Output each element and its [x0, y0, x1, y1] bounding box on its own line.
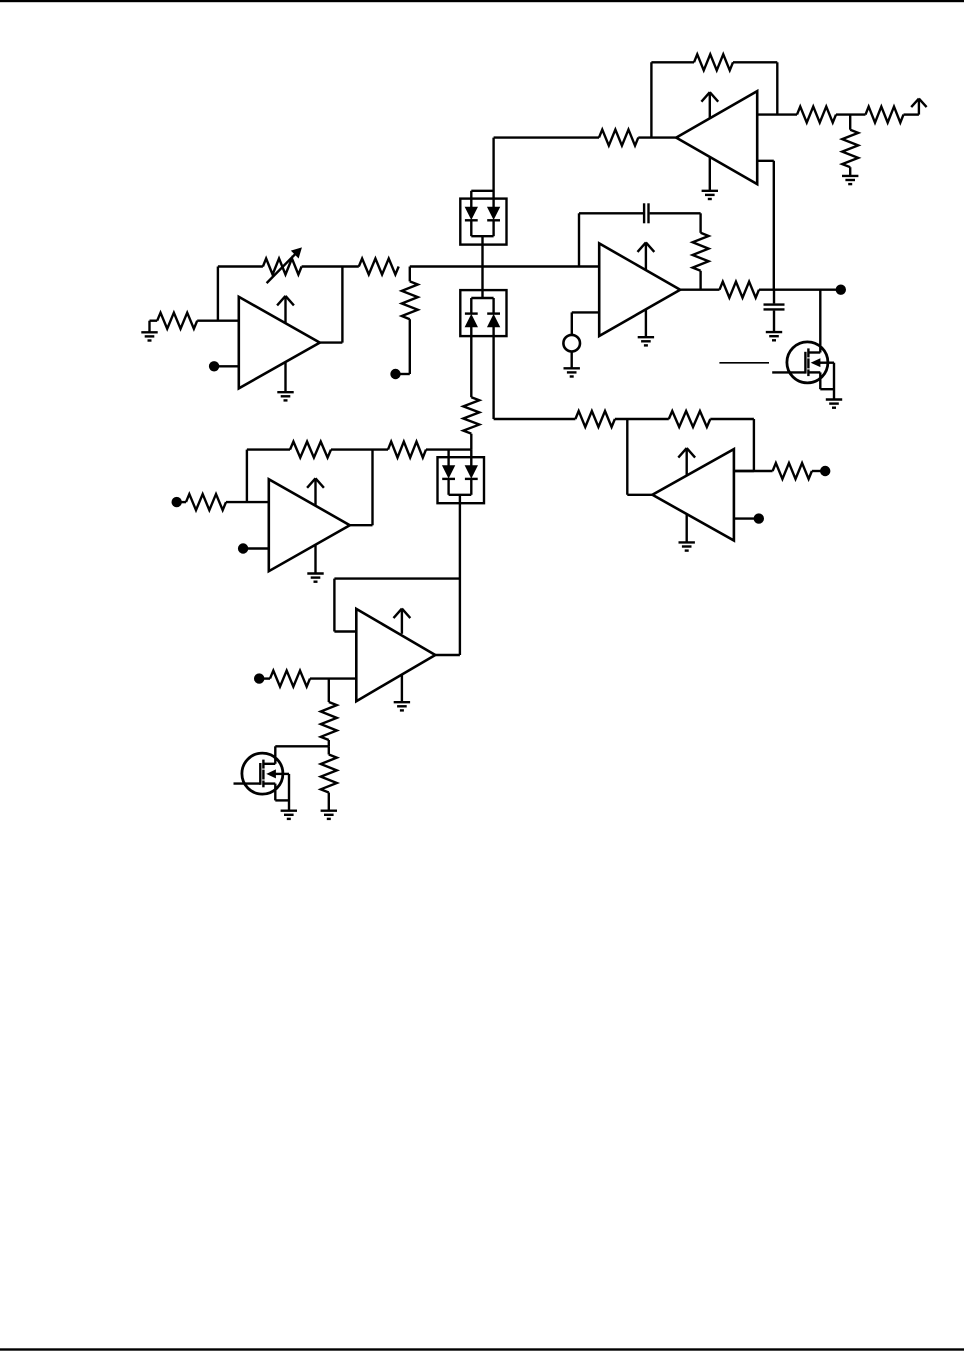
open circle terminal at U2: [563, 335, 580, 352]
wire divider node: [275, 745, 329, 747]
ground under R4: [842, 176, 858, 184]
node terminal dot U5 input: [254, 673, 270, 683]
node terminal dot U3 non-inverting: [238, 543, 269, 553]
wire C1 left vertical to bus: [578, 213, 580, 266]
resistor R1 (U1 feedback): [694, 54, 733, 70]
wire DB1 cathode leads: [471, 220, 493, 236]
wire to Q1 drain: [819, 290, 821, 353]
resistor R14 (to dot): [773, 463, 812, 479]
wire feedback top right segment (U1): [733, 61, 777, 63]
resistor R8 (U0 output): [359, 259, 399, 275]
wire feedback top left segment (U1): [651, 61, 694, 63]
node terminal dot U3 input: [172, 497, 187, 507]
ground under U2: [638, 309, 654, 346]
resistor R11 (U2 output): [720, 282, 759, 298]
wire to U4 output dot: [812, 470, 821, 472]
ground under U1: [702, 157, 718, 199]
diode D2: [487, 207, 500, 220]
wire main horizontal bus: [410, 265, 599, 267]
resistor R10 (U2 feedback): [693, 213, 709, 289]
resistor R16 (U3 feedback): [290, 442, 331, 458]
wire C1 top left segment: [579, 212, 643, 214]
wire DB3 to U5 output: [459, 495, 461, 655]
wire U2 non-inverting input: [572, 312, 599, 335]
wire U0 inverting input: [197, 320, 239, 322]
wire node to Q2 drain: [274, 746, 276, 764]
wire U4 lower pin: [734, 517, 754, 519]
ground under circle terminal: [564, 352, 580, 377]
wire DB1 top jog: [471, 191, 493, 208]
wire U0 feedback top right: [302, 265, 359, 267]
diode block DB2 box: [460, 290, 506, 336]
resistor R2 (input chain): [797, 107, 836, 123]
ground under Q2: [281, 811, 297, 819]
wire U3 feedback right vertical: [350, 450, 373, 526]
wire U3 feedback top middle: [331, 448, 388, 450]
op-amp U4: [652, 448, 734, 540]
wire DB3 left anode stub: [447, 450, 449, 466]
wire Q1 gate stub: [772, 371, 805, 373]
wire U1 output: [638, 136, 676, 138]
wire Q2 gate stub: [234, 782, 261, 784]
ground under U3: [307, 545, 323, 582]
wire to DB3 top: [426, 448, 471, 450]
resistor R13 (U4 feedback): [669, 411, 711, 427]
wire U1 output to diode block: [494, 138, 599, 208]
wire U0 feedback top left: [218, 265, 263, 267]
node terminal dot U0 non-inverting: [209, 361, 239, 371]
resistor R12 (U4 input): [575, 411, 614, 427]
wire U2 output: [680, 289, 719, 291]
transistor Q2: [242, 753, 289, 811]
ground under C2: [766, 332, 782, 340]
ground under U5: [394, 674, 410, 710]
diode D5: [442, 466, 455, 479]
capacitor C1 (U2 feedback): [644, 203, 648, 223]
wire U0 feedback right vertical: [320, 267, 343, 343]
wire U0 feedback left vertical: [217, 267, 219, 321]
ground at U0 input: [141, 321, 157, 341]
wire U4 chain middle: [615, 418, 669, 420]
transistor Q1: [787, 342, 834, 400]
wire U5 non-inverting input: [310, 677, 356, 679]
op-amp U2: [599, 242, 680, 336]
wire bus to DB2: [481, 267, 483, 299]
wire U1 pin down to node N1: [773, 161, 775, 290]
wire DB2 to U4 chain: [494, 418, 576, 420]
wire U1 non-inverting pin: [757, 160, 774, 162]
wire DB2 cathode leads: [471, 298, 493, 314]
resistor R4 (node B to ground): [842, 115, 858, 176]
diode block DB3 box: [438, 457, 485, 503]
bottom border rule: [0, 1348, 964, 1350]
wire U5 output: [435, 654, 460, 656]
op-amp U5: [356, 609, 435, 702]
wire node N1 to dot: [759, 289, 836, 291]
wire feedback left vertical (U1): [650, 62, 652, 137]
wire DB3 cathode leads: [449, 479, 472, 495]
op-amp U1: [676, 91, 757, 184]
wire DB3 right anode stub: [470, 450, 472, 466]
op-amp U0: [239, 296, 320, 389]
resistor R17 (to DB3): [388, 442, 426, 458]
resistor R20 (divider bottom): [321, 746, 337, 810]
wire U5 feedback left vertical: [334, 579, 356, 632]
resistor R15 (U3 input): [186, 494, 226, 510]
wire U4 upper pin right: [734, 470, 773, 472]
top border rule: [0, 0, 964, 2]
ground under R20: [321, 811, 337, 819]
ground under U4: [679, 514, 695, 551]
resistor R19 (divider top): [321, 679, 337, 747]
resistor R6 (below DB2): [463, 397, 479, 449]
wire U4 feedback down: [710, 419, 754, 471]
wire DB1 to bus: [481, 236, 483, 266]
node terminal dot U4 output: [820, 466, 830, 476]
wire U1 inverting input: [757, 113, 797, 115]
node terminal dot below R9: [390, 369, 400, 379]
wire to node B: [836, 113, 866, 115]
op-amp U3: [269, 478, 350, 571]
diode D1: [465, 207, 478, 220]
capacitor C2 (N1 to ground): [764, 290, 785, 332]
wire DB2 left anode lead: [470, 327, 472, 398]
resistor R3 (to terminal): [866, 107, 904, 123]
resistor R18 (U5 input): [270, 671, 310, 687]
resistor R5 (U1 output): [599, 130, 638, 146]
ground under U0: [277, 362, 293, 401]
label rule near Q1: [719, 362, 769, 364]
wire U5 feedback top: [334, 577, 460, 579]
wire U3 inverting input: [226, 501, 269, 503]
variable resistor VR1 (U0 feedback): [263, 248, 302, 283]
diode D3: [465, 314, 478, 327]
resistor R9 (to output dot): [400, 267, 418, 375]
wire U3 feedback left vertical: [247, 450, 290, 503]
diode block DB1 box: [460, 199, 506, 245]
terminal arrow VIN: [911, 99, 926, 108]
node terminal dot U4 input: [754, 513, 764, 523]
wire DB2 right anode lead: [492, 327, 494, 419]
diode D6: [465, 466, 478, 479]
wire feedback right vertical (U1): [776, 62, 778, 114]
wire to terminal arrow: [904, 100, 919, 114]
node terminal dot N1: [836, 285, 846, 295]
diode D4: [487, 314, 500, 327]
wire C1 top right segment: [650, 212, 701, 214]
wire U4 output up: [627, 419, 652, 495]
ground under Q1: [826, 400, 842, 408]
resistor R7 (U0 input): [157, 313, 197, 329]
